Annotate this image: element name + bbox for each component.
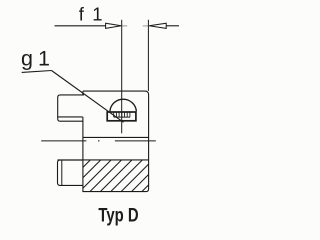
hatch line 3 — [83, 160, 111, 188]
hatch line 8 — [132, 175, 149, 192]
hatch line 7 — [121, 164, 149, 192]
screw knurl verticals — [114, 112, 130, 117]
body top-left flange: edge A, left edge, slot lower line — [58, 95, 84, 121]
boss tab inner vertical — [61, 160, 63, 185]
dimension line f1 left shaft — [55, 25, 106, 27]
center line dash left — [41, 140, 86, 142]
svg-text:f: f — [79, 3, 85, 24]
dimension line f1 right shaft — [166, 25, 179, 27]
hatch line 4 — [90, 160, 122, 192]
leader diagonal g1 — [52, 71, 124, 123]
boss tab outline — [58, 160, 83, 185]
hatch line 6 — [111, 160, 143, 192]
leader underline g1 — [22, 71, 52, 73]
svg-text:1: 1 — [92, 3, 102, 24]
hatch line 1 — [83, 160, 91, 168]
svg-text:g: g — [21, 47, 33, 71]
main body outline — [83, 91, 149, 192]
screw dome arc — [110, 99, 136, 111]
slot upper line — [58, 116, 83, 118]
screw body rect — [107, 112, 136, 121]
dimension stub gray right — [143, 25, 148, 27]
screw knurl band bottom — [114, 116, 130, 118]
hatch line 2 — [83, 160, 101, 178]
extension line right — [147, 20, 149, 91]
bore line F — [83, 136, 149, 138]
hatch top edge — [58, 159, 149, 161]
svg-text:Typ D: Typ D — [98, 204, 138, 226]
arrowhead right (points left) — [149, 23, 166, 28]
dimension stub gray left — [122, 25, 128, 27]
center line dot — [98, 140, 100, 142]
extension line left / screw axis — [121, 20, 123, 134]
hatch line 9 — [142, 185, 149, 192]
step vertical at x=83 — [82, 91, 84, 95]
arrowhead left (points right) — [106, 23, 122, 28]
svg-text:1: 1 — [38, 47, 50, 71]
center line dash right — [115, 140, 156, 142]
hatch line 5 — [100, 160, 132, 192]
